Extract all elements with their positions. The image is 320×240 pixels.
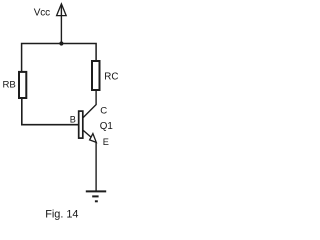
wire: emitter down to ground <box>95 142 97 191</box>
svg-text:C: C <box>100 105 107 116</box>
svg-text:RB: RB <box>3 80 16 91</box>
wire: top rail with left and right drops <box>22 44 97 72</box>
emitter diagonal of Q1 <box>83 130 91 137</box>
wire: RC bottom and collector diagonal of Q1 <box>83 90 96 117</box>
svg-text:B: B <box>70 115 76 125</box>
transistor Q1 base bar <box>79 111 83 138</box>
svg-text:E: E <box>103 137 109 147</box>
svg-text:Fig. 14: Fig. 14 <box>45 209 78 221</box>
emitter arrowhead (open) of Q1 <box>90 134 97 143</box>
svg-text:Q1: Q1 <box>100 121 113 132</box>
resistor RB <box>19 72 26 98</box>
junction dot at Vcc node <box>59 41 63 45</box>
ground <box>86 191 106 201</box>
svg-text:Vcc: Vcc <box>34 7 50 18</box>
resistor RC <box>92 61 100 90</box>
wire: RB bottom to base <box>22 99 79 125</box>
Vcc power symbol (arrow) <box>57 4 67 44</box>
svg-text:RC: RC <box>104 71 118 82</box>
